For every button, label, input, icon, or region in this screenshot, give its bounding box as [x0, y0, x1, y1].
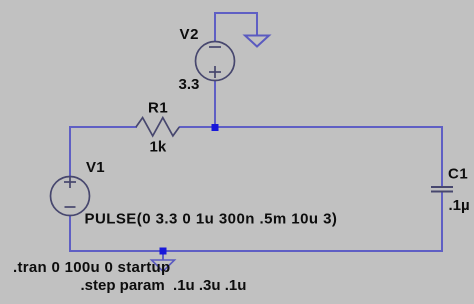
junction node A (R1/V2/C1 net)	[212, 124, 219, 131]
wire junction A to right top corner	[215, 126, 443, 128]
wire top-left horizontal (node N001 to R1 left)	[69, 126, 137, 128]
wire left vertical top (to V1)	[69, 126, 71, 177]
svg-text:1k: 1k	[150, 139, 167, 156]
capacitor C1 plates	[431, 187, 453, 192]
svg-text:3.3: 3.3	[179, 76, 200, 93]
wire right vertical top (to C1)	[441, 126, 443, 187]
voltage source V1 (circle, plus top, minus bottom)	[51, 176, 90, 216]
ground symbol bottom (node 0)	[152, 260, 175, 271]
svg-text:V2: V2	[180, 26, 200, 43]
svg-text:.tran 0 100u 0 startup: .tran 0 100u 0 startup	[13, 259, 171, 276]
wire V2 top vertical	[214, 12, 216, 42]
wire bottom rail	[69, 250, 443, 252]
svg-text:PULSE(0 3.3 0 1u 300n .5m 10u: PULSE(0 3.3 0 1u 300n .5m 10u 3)	[85, 211, 338, 228]
wire bottom ground stub	[162, 251, 164, 260]
wire R1 right to junction A	[179, 126, 215, 128]
ground symbol top (for V2)	[245, 36, 269, 47]
wire right vertical bottom (C1 to bottom rail)	[441, 192, 443, 252]
svg-text:.1µ: .1µ	[449, 197, 470, 214]
wire left vertical bottom (V1 to bottom rail)	[69, 215, 71, 252]
wire V2 bottom to junction A	[214, 80, 216, 128]
svg-text:R1: R1	[148, 100, 168, 117]
resistor R1 zigzag	[136, 118, 179, 136]
svg-text:V1: V1	[86, 159, 105, 176]
junction node 0 (bottom rail / ground)	[160, 248, 167, 255]
svg-text:.step param .1u .3u .1u: .step param .1u .3u .1u	[81, 277, 247, 294]
voltage source V2 (circle, minus top, plus bottom)	[196, 42, 235, 81]
wire V2 top horizontal to ground	[214, 12, 258, 14]
wire ground drop	[256, 13, 258, 36]
svg-text:C1: C1	[448, 166, 468, 183]
